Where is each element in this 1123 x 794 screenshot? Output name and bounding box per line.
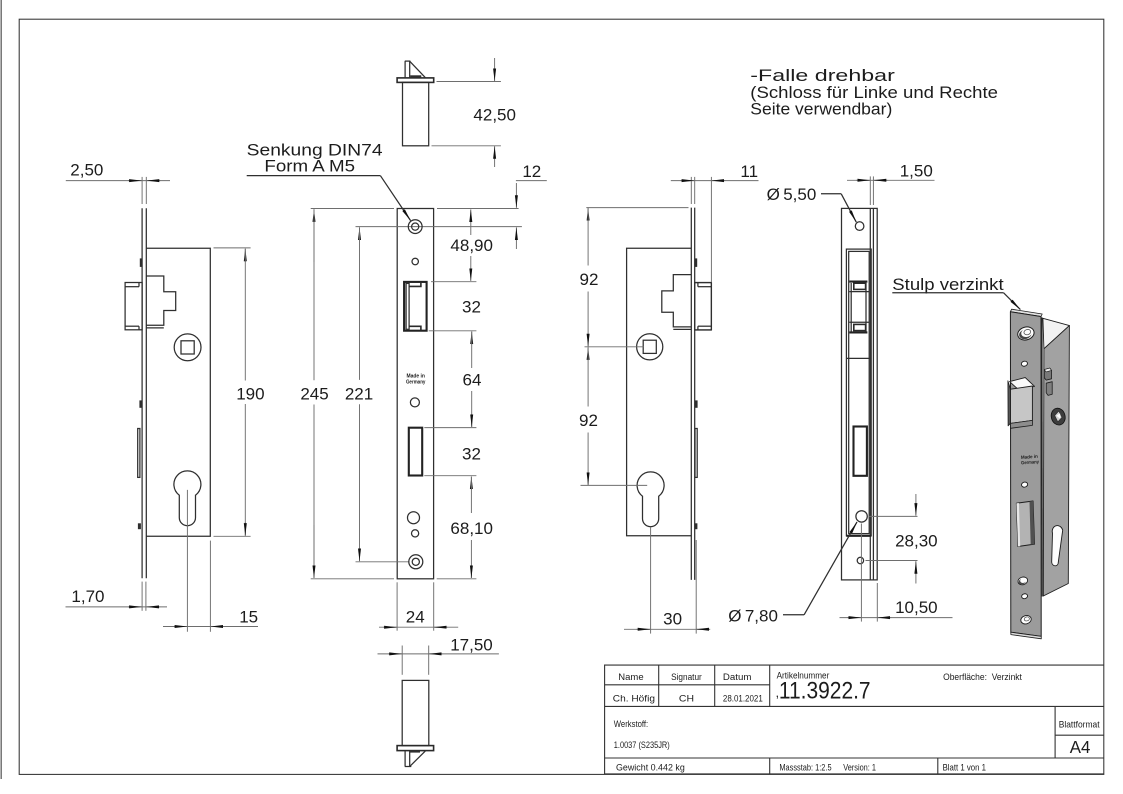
svg-text:Werkstoff:: Werkstoff: (614, 719, 648, 729)
svg-text:190: 190 (236, 385, 264, 404)
lower bolt opening (back) (854, 427, 867, 476)
svg-text:Germany: Germany (406, 380, 426, 386)
svg-text:17,50: 17,50 (450, 636, 493, 655)
3D latch protruding (1008, 378, 1035, 429)
lower bolt opening (409, 428, 422, 476)
euro cylinder keyhole (174, 471, 201, 526)
plate rivet ticks (138, 258, 143, 529)
3D case right face (1043, 326, 1069, 596)
extension line through top screw hole (356, 226, 522, 228)
latch tip bar and bevel (bottom) (405, 750, 426, 766)
svg-text:32: 32 (462, 298, 481, 317)
title block grid (605, 665, 1104, 774)
svg-text:42,50: 42,50 (473, 105, 516, 124)
svg-text:68,10: 68,10 (450, 519, 493, 538)
svg-text:28.01.2021: 28.01.2021 (723, 694, 763, 704)
svg-text:28,30: 28,30 (895, 532, 938, 551)
lock case rectangle (146, 248, 210, 536)
faceplate edge lines (142, 208, 146, 578)
dimension 28,30 (866, 494, 938, 584)
3D bottom hole 1 (1017, 576, 1029, 586)
plate rivet ticks (694, 258, 697, 529)
label diameter 7,80 with leader (728, 522, 857, 625)
dimension 245 (300, 209, 394, 579)
hole diameter 7,80 (856, 511, 867, 522)
svg-text:Oberfläche: Verzinkt: Oberfläche: Verzinkt (943, 672, 1022, 682)
note: Falle drehbar (750, 66, 998, 118)
svg-text:Datum: Datum (723, 672, 752, 682)
svg-text:32: 32 (462, 445, 481, 464)
3D follower square hole (1049, 407, 1067, 427)
svg-text:48,90: 48,90 (450, 236, 493, 255)
3D faceplate front face (1010, 312, 1041, 637)
3D strike tabs on case face (1044, 368, 1052, 395)
title block: header texts (613, 671, 1023, 704)
3D lower bolt opening (1016, 501, 1034, 547)
svg-text:92: 92 (580, 270, 599, 289)
bottom countersunk screw hole (409, 555, 423, 569)
svg-text:11.3922.7: 11.3922.7 (779, 677, 871, 704)
latch opening (404, 282, 427, 331)
lock case rectangle (627, 248, 692, 536)
middle hole (410, 398, 419, 407)
dimension 64 (424, 332, 481, 428)
svg-text:Blattformat: Blattformat (1059, 720, 1100, 730)
svg-text:245: 245 (300, 385, 328, 404)
page edge artifact line (0, 0, 2, 779)
dimension 48,90 (431, 209, 493, 281)
svg-text:1,70: 1,70 (71, 587, 104, 606)
dimension 10,50 (840, 524, 953, 622)
Senkung DIN74 note with leader (247, 141, 411, 221)
svg-text:A4: A4 (1070, 737, 1091, 757)
3D bottom small hole (1021, 593, 1028, 599)
3D small hole upper (1021, 360, 1028, 367)
3D small hole middle (1021, 481, 1028, 488)
svg-text:10,50: 10,50 (895, 598, 938, 617)
dimension 68,10 (437, 477, 493, 579)
svg-text:1,50: 1,50 (900, 162, 933, 181)
3D euro keyhole on case face (1052, 526, 1063, 566)
faceplate cross-section (top) (397, 78, 434, 83)
svg-text:92: 92 (579, 411, 598, 430)
svg-text:24: 24 (406, 608, 425, 627)
3D Made in Germany text (1020, 454, 1039, 466)
dimension 12 (437, 162, 547, 249)
3D case top face (1043, 318, 1070, 349)
dimension 92 upper (580, 208, 689, 347)
dimension 190 (214, 248, 265, 536)
svg-text:Massstab: 1:2.5: Massstab: 1:2.5 (779, 762, 831, 772)
svg-text:Blatt 1 von 1: Blatt 1 von 1 (943, 762, 986, 772)
svg-text:2,50: 2,50 (70, 160, 103, 179)
latch tip bar and bevel (405, 61, 426, 78)
svg-text:12: 12 (522, 162, 541, 181)
latch tip outline (695, 283, 712, 330)
svg-text:Seite verwendbar): Seite verwendbar) (750, 99, 892, 118)
dimension 17,50 (378, 636, 499, 675)
label diameter 5,50 with leader (767, 185, 857, 222)
svg-text:Ø 5,50: Ø 5,50 (767, 185, 817, 204)
small hole bottom (857, 557, 863, 563)
title block: material and weight rows (614, 719, 1100, 772)
svg-text:64: 64 (463, 371, 482, 390)
svg-text:CH: CH (679, 694, 694, 704)
dimension 221 (345, 227, 373, 561)
3D gap edge between plate and case (1041, 317, 1043, 596)
svg-text:Form A M5: Form A M5 (264, 156, 355, 175)
Made in Germany text (406, 373, 426, 385)
latch bolt body (bottom view) (402, 680, 429, 745)
outer plate outline (back) (842, 208, 878, 580)
dimension 15 (163, 490, 258, 632)
latch bolt body (top view) (403, 82, 429, 145)
svg-text:221: 221 (345, 385, 373, 404)
svg-text:Made in: Made in (406, 373, 425, 379)
faceplate outline (397, 209, 433, 579)
faceplate edge pair (870, 208, 873, 580)
svg-text:Ch. Höfig: Ch. Höfig (613, 694, 655, 704)
dimension 42,50 (432, 58, 516, 167)
inner case walls (846, 249, 871, 536)
3D plate bottom edge sliver (1011, 632, 1042, 639)
faceplate edge lines (691, 208, 694, 580)
follower square in circle (637, 334, 663, 360)
dimension 24 (379, 582, 458, 630)
dimension 32 lower (424, 445, 481, 476)
svg-text:Version: 1: Version: 1 (843, 762, 876, 772)
svg-text:Stulp verzinkt: Stulp verzinkt (892, 275, 1004, 294)
dimension 30 (624, 527, 710, 634)
latch head outside door (125, 283, 142, 330)
svg-text:Ø 7,80: Ø 7,80 (728, 606, 778, 625)
top countersunk screw hole (408, 220, 422, 234)
faceplate cross-section (bottom) (397, 746, 434, 751)
note: Stulp verzinkt with leader (892, 275, 1020, 310)
svg-text:Name: Name (618, 672, 643, 682)
top hole diameter 5,50 (855, 222, 864, 231)
lower holes (408, 512, 420, 537)
latch body inside case (146, 276, 175, 328)
svg-text:11: 11 (740, 162, 758, 181)
3D top countersunk screw hole (1016, 325, 1035, 342)
dimension 11 (671, 162, 759, 283)
euro cylinder keyhole (637, 472, 664, 527)
3D bottom countersunk screw hole (1020, 614, 1032, 625)
svg-text:1.0037 (S235JR): 1.0037 (S235JR) (614, 740, 670, 750)
3D plate top edge sliver (1010, 309, 1042, 316)
extension line through bottom screw hole (356, 561, 410, 563)
latch body inside case (662, 275, 692, 330)
svg-text:30: 30 (663, 609, 682, 628)
dimension 2,50 (66, 160, 170, 204)
svg-text:15: 15 (239, 607, 258, 626)
latch block (back view) (846, 282, 871, 359)
small hole (412, 258, 418, 264)
svg-text:Signatur: Signatur (671, 672, 702, 682)
svg-text:Gewicht 0.442 kg: Gewicht 0.442 kg (616, 762, 685, 772)
title block: part number 11.3922.7 (776, 677, 871, 704)
latch head outside door (695, 283, 712, 330)
dimension 1,70 (66, 582, 168, 611)
dimension 32 upper (429, 298, 481, 331)
follower square in circle (174, 334, 201, 361)
dimension 1,50 (847, 162, 935, 205)
dimension 92 lower (579, 347, 647, 485)
